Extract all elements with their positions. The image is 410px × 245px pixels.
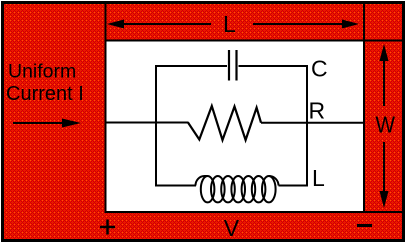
dimension arrow L (left segment) — [118, 23, 211, 25]
svg-text:W: W — [376, 112, 396, 138]
resistor R zigzag — [188, 106, 261, 140]
dimension arrow W (bottom segment) — [383, 142, 385, 200]
capacitor C plates — [228, 50, 230, 81]
dimension arrow L (right segment) — [253, 23, 348, 25]
wire: bottom edge extension to right border — [364, 211, 403, 213]
inductor L coil — [196, 176, 208, 186]
circuit box right edge wire — [306, 65, 308, 186]
top wire right of capacitor — [239, 65, 309, 67]
terminal plus sign — [100, 226, 115, 229]
node: right feed wire from circuit to plate edge — [261, 122, 364, 124]
arrowhead left of L — [107, 20, 124, 29]
svg-text:R: R — [309, 98, 326, 124]
bottom wire left of inductor — [155, 185, 196, 187]
node: left feed wire into plate — [105, 122, 189, 124]
current direction arrow — [13, 122, 64, 124]
svg-text:C: C — [311, 56, 328, 82]
terminal minus sign — [357, 224, 372, 227]
svg-text:V: V — [224, 215, 240, 241]
bottom wire right of inductor — [279, 185, 309, 187]
wire: left divider from top border to plate — [105, 3, 107, 41]
arrowhead bottom of W — [380, 191, 389, 208]
top wire left of capacitor — [155, 65, 227, 67]
svg-text:Current I: Current I — [6, 83, 84, 105]
wire: right divider from top border to plate — [363, 3, 365, 41]
svg-text:L: L — [312, 165, 325, 191]
svg-text:Uniform: Uniform — [8, 61, 76, 83]
circuit box left edge wire — [155, 65, 157, 186]
dimension arrow W (top segment) — [383, 52, 385, 106]
white conductor plate — [106, 41, 365, 213]
arrowhead top of W — [380, 44, 389, 61]
arrowhead right of L — [342, 20, 359, 29]
wire: top edge extension to right border — [364, 40, 403, 42]
svg-text:L: L — [223, 11, 236, 37]
